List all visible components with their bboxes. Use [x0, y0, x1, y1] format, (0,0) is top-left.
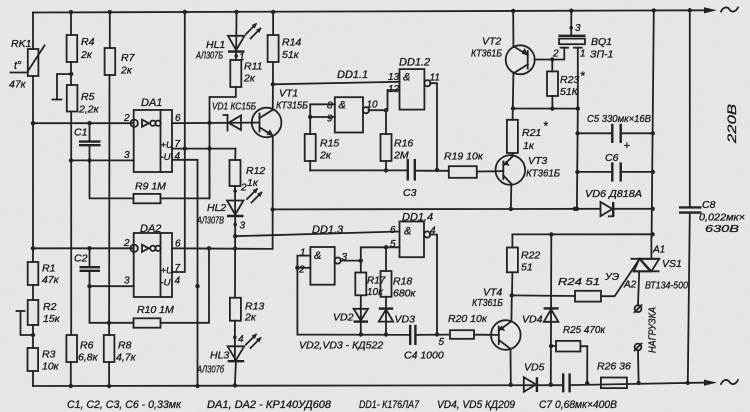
- resistor R4: [67, 35, 95, 62]
- wire VT2 collector to R21: [512, 73, 515, 120]
- wire column x=109 (R7/R8 divider): [107, 10, 112, 388]
- resistor R14: [268, 10, 302, 62]
- wire DA1 pin7 net y=148.6: [172, 146, 236, 150]
- resistor R25: [551, 324, 606, 385]
- wire VT1 collector to DD1.2 pin13: [273, 82, 400, 85]
- wire VT1 emitter column x=272.8: [271, 136, 275, 249]
- node top-rail AC terminal ~: [721, 7, 738, 11]
- wire HL2 to R13 column: [233, 216, 237, 298]
- resistor R18: [381, 247, 417, 334]
- resistor R8: [104, 335, 137, 364]
- paper grain overlay (decorative): [0, 0, 1, 1]
- wire DA2 pin6 output net y=248.3: [172, 246, 273, 250]
- resistor R12: [230, 160, 266, 189]
- resistor R26 (in bottom rail): [597, 361, 631, 389]
- NAND gate DD1.3: [295, 224, 363, 335]
- wire +U column x=185: [172, 12, 185, 272]
- resistor R20: [448, 313, 491, 339]
- resistor R6: [66, 335, 98, 364]
- wire DA1 pin6 output to VD1/VT1 y=123: [172, 121, 252, 125]
- wire VT2 emitter to top rail: [511, 9, 515, 47]
- capacitor C6: [577, 152, 655, 182]
- wire bottom supply rail left segment: [33, 384, 563, 387]
- capacitor C8: [679, 8, 745, 385]
- resistor R17: [355, 273, 385, 335]
- resistor R10: [134, 248, 210, 327]
- LED HL3: [196, 334, 261, 388]
- op-amp DA1: [123, 97, 181, 172]
- resistor R22: [507, 234, 541, 295]
- resistor R13: [230, 298, 265, 324]
- wire column x=71 (R4/R5/R6 divider): [69, 10, 74, 388]
- wire R11 to jog x=209.5: [210, 87, 236, 198]
- transistor VT3: [496, 155, 561, 185]
- wire DA1 pin4 drop x=197.5: [172, 160, 200, 388]
- wire VT4 collector to bottom rail: [509, 349, 513, 387]
- resistor R15: [305, 134, 340, 170]
- resistor R11: [230, 60, 262, 87]
- node bottom-rail AC terminal ~: [721, 380, 738, 384]
- resistor R1: [28, 262, 60, 286]
- capacitor C4: [404, 325, 450, 362]
- wire C1-R9 link x=89.5: [90, 160, 134, 198]
- wire R22 top net y=234.4: [512, 232, 652, 236]
- wire left column x=33: [32, 13, 34, 387]
- resistor R5 (trimmer) with wiper link: [53, 72, 100, 116]
- wire VT4 emitter up to R22/R24 node: [510, 293, 514, 321]
- zener diode VD6: [585, 188, 655, 216]
- wire DD1.4 pin6 net y=236..231: [235, 232, 399, 237]
- wire DA2 pin2 net y=248.3: [31, 246, 134, 250]
- wire C3 to R19: [415, 170, 449, 172]
- resistor R7: [105, 48, 136, 77]
- diode VD4: [522, 234, 559, 387]
- diode VD5 (in bottom rail): [524, 362, 545, 393]
- transistor VT1: [252, 88, 308, 138]
- thermistor RK1: [9, 38, 45, 91]
- resistor R3: [28, 348, 60, 373]
- LED HL1: [195, 23, 261, 63]
- wire DA1 pin2 net y=123: [31, 121, 134, 125]
- wire DA1 pin3 net y=160.4: [69, 158, 134, 162]
- wire R13 to HL3: [233, 321, 244, 362]
- triac VS1: [631, 234, 688, 291]
- wire right column x=652 (to triac A1): [650, 8, 656, 236]
- wire C2-R10 link x=89.5: [90, 286, 134, 323]
- op-amp DA2: [123, 223, 181, 297]
- wire pin7 net to R12: [234, 149, 236, 160]
- resistor R21: [507, 119, 548, 156]
- NAND gate DD1.4: [361, 212, 437, 335]
- wire R15/R16 bottom net y=170.4 with C3: [310, 169, 408, 171]
- piezo sounder BQ1: [550, 9, 613, 109]
- wire R12 to HL2: [233, 183, 247, 217]
- capacitor C2: [74, 248, 100, 286]
- wire VT3 collector to y=209 net: [509, 184, 513, 211]
- wire y=209 net (VT1 emitter to VD6): [273, 207, 601, 211]
- resistor R9: [134, 149, 210, 204]
- zener diode VD1: [212, 101, 256, 131]
- transistor VT2: [471, 36, 552, 75]
- wire bottom rail right segment: [570, 380, 717, 386]
- resistor R19: [444, 151, 496, 178]
- resistor R23: [511, 60, 585, 111]
- transistor VT4: [472, 287, 521, 350]
- capacitor C7 (in bottom rail): [563, 373, 569, 392]
- NAND gate DD1.2: [388, 57, 440, 173]
- capacitor C1: [74, 123, 101, 160]
- resistor R24: [512, 260, 639, 302]
- LED HL2: [196, 188, 262, 231]
- load connector upper: [635, 271, 642, 312]
- wire DA2 pin3 net y=286.2: [87, 284, 133, 288]
- capacitor C5: [578, 113, 655, 152]
- capacitor C3: [403, 159, 417, 199]
- diode VD3: [379, 309, 415, 337]
- resistor R16: [381, 110, 414, 172]
- load connector lower: [635, 344, 642, 386]
- resistor R2 (trimmer): [17, 300, 61, 337]
- NAND gate DD1.1: [308, 69, 388, 134]
- wire BQ1/R23 node column x=577.7: [575, 109, 580, 211]
- wire top supply rail: [33, 7, 717, 13]
- wire C4 left net y=334.5: [297, 334, 410, 336]
- wire HL1 column from top rail: [234, 10, 238, 52]
- diode VD2: [333, 309, 368, 337]
- wire VT1 collector to R14: [271, 62, 275, 110]
